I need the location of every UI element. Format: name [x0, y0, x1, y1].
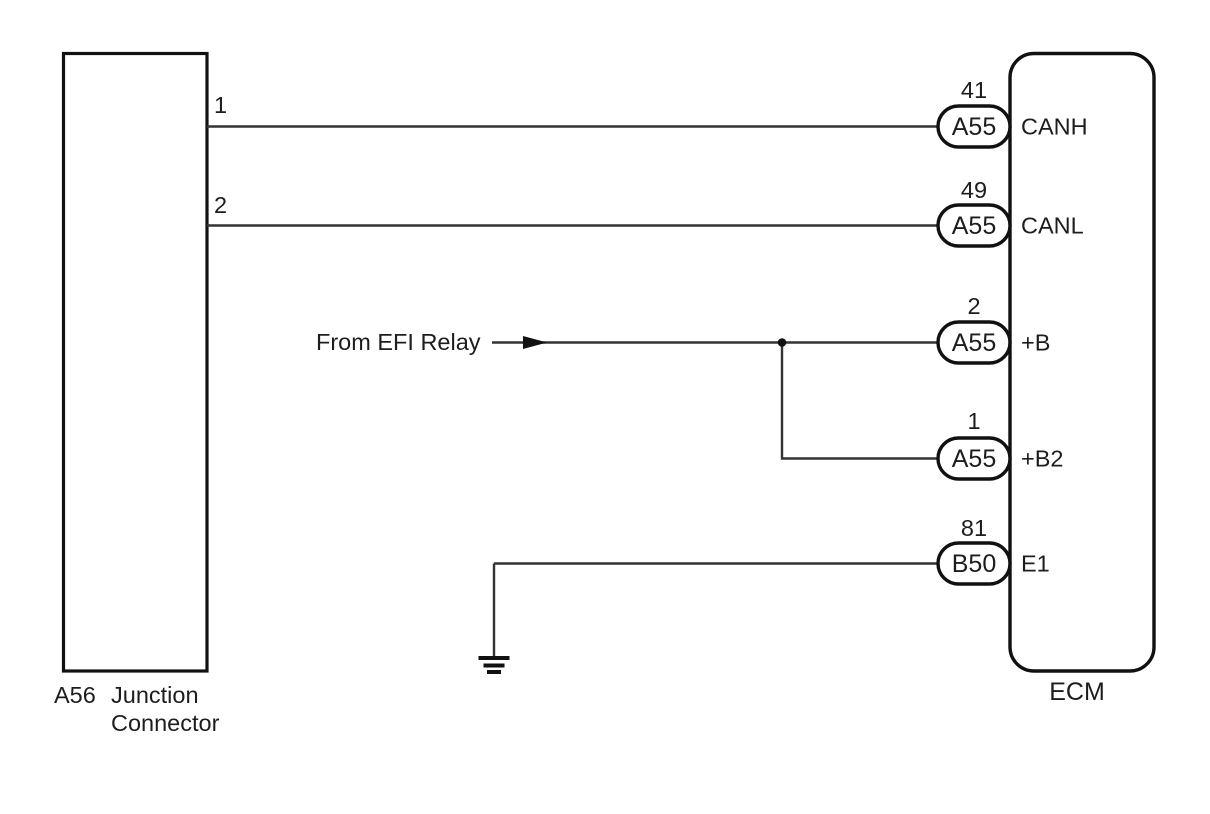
- svg-text:CANH: CANH: [1021, 114, 1088, 140]
- svg-text:2: 2: [967, 293, 980, 319]
- svg-text:A55: A55: [952, 212, 996, 240]
- svg-text:CANL: CANL: [1021, 213, 1084, 239]
- svg-text:ECM: ECM: [1049, 678, 1105, 706]
- svg-text:41: 41: [961, 77, 987, 103]
- svg-text:+B: +B: [1021, 330, 1050, 356]
- svg-text:49: 49: [961, 177, 987, 203]
- svg-text:A55: A55: [952, 445, 996, 473]
- svg-text:B50: B50: [952, 550, 996, 578]
- svg-text:A55: A55: [952, 113, 996, 141]
- svg-text:A56: A56: [54, 682, 96, 708]
- svg-text:Junction: Junction: [111, 682, 199, 708]
- svg-text:1: 1: [214, 92, 227, 118]
- svg-text:E1: E1: [1021, 551, 1050, 577]
- svg-text:Connector: Connector: [111, 710, 220, 736]
- svg-text:81: 81: [961, 515, 987, 541]
- svg-text:2: 2: [214, 192, 227, 218]
- svg-text:From EFI Relay: From EFI Relay: [316, 329, 481, 355]
- svg-text:+B2: +B2: [1021, 446, 1063, 472]
- svg-text:1: 1: [967, 408, 980, 434]
- svg-text:A55: A55: [952, 329, 996, 357]
